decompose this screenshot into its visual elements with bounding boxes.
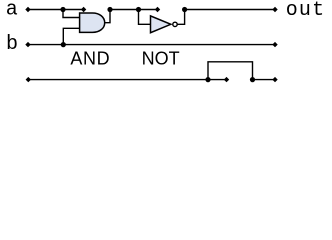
wire: bottom hop bridge <box>208 62 253 80</box>
endpoint diamond: AND-NOT rail end <box>155 7 160 12</box>
endpoint diamond: bottom mid end <box>224 77 229 82</box>
junction dot: AND out corner <box>107 7 112 12</box>
svg-text:b: b <box>6 33 18 56</box>
endpoint diamond: b start <box>25 42 30 47</box>
endpoint diamond: a-line end <box>81 7 86 12</box>
AND gate U1 <box>80 13 105 32</box>
NOT gate U2 bubble <box>173 22 177 26</box>
junction dot: a-line to AND A <box>60 7 65 12</box>
svg-text:NOT: NOT <box>142 49 180 69</box>
endpoint diamond: a start <box>25 7 30 12</box>
endpoint diamond: b-line end <box>272 42 277 47</box>
endpoint diamond: out rail end <box>272 7 277 12</box>
wire: b-line junction up to AND input B <box>63 28 79 44</box>
svg-text:a: a <box>6 0 18 21</box>
wire: AND output up to top rail <box>105 10 110 23</box>
svg-text:out: out <box>286 0 326 22</box>
wire: NOT output up to out rail <box>177 10 185 25</box>
wire: branch down to NOT input <box>139 10 151 25</box>
junction dot: b-line to AND B <box>61 42 66 47</box>
junction dot: bottom hop right <box>250 77 255 82</box>
wire: top rail AND out to NOT branch <box>110 9 158 11</box>
junction dot: bottom hop left <box>205 77 210 82</box>
wire b: input b horizontal run <box>28 44 275 46</box>
junction dot: NOT branch <box>136 7 141 12</box>
junction dot: NOT out corner <box>182 7 187 12</box>
svg-text:AND: AND <box>70 49 110 69</box>
endpoint diamond: bottom start <box>26 77 31 82</box>
wire: out rail to out label <box>185 9 275 11</box>
endpoint diamond: bottom right end <box>272 77 277 82</box>
wire: a-line junction down to AND input A <box>63 10 80 18</box>
wire a: input a horizontal run <box>28 9 84 11</box>
NOT gate U2 body <box>151 16 171 33</box>
wire: bottom rail right stub <box>253 79 276 81</box>
wire: bottom rail left run <box>28 79 226 81</box>
